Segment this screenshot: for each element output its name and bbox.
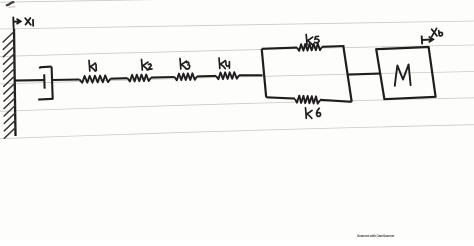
wire wall to damper [15,79,44,82]
parallel block left bar [262,49,267,98]
pen mark smudge [7,2,14,5]
wire damper to spring K1 [53,78,80,81]
label K5 [306,35,319,46]
mass M letter [395,65,411,86]
spring K5 [297,44,322,51]
parallel block top wire left [262,48,297,49]
label K6 [306,108,321,119]
label K2 [142,60,153,71]
wire K3 to K4 [197,75,216,78]
spring K1 [80,75,111,82]
spring K6 [295,96,320,104]
damper cylinder [38,67,53,100]
label x1 arrow [13,18,20,28]
wall hatching [3,32,15,139]
label K3 [180,59,190,70]
parallel block bottom wire right [320,100,352,102]
label K4 [219,58,229,69]
wire K2 to K3 [151,76,175,79]
mass M box [376,47,435,99]
svg-text:Scanned with CamScanner: Scanned with CamScanner [357,234,395,238]
label x1 text [25,18,33,26]
wall [14,29,16,137]
label xb arrow [422,36,433,43]
wire block to mass [348,74,380,75]
parallel block right bar [343,46,351,102]
spring K2 [128,75,152,82]
parallel block top wire right [322,45,345,48]
spring K3 [175,73,198,80]
spring K4 [216,72,239,79]
wire K4 to parallel block [239,74,263,76]
label xb text [432,28,443,36]
parallel block bottom wire left [266,97,295,98]
label K1 [89,61,96,72]
damper piston plate [43,74,45,88]
wire K1 to K2 [111,77,128,80]
ruled notebook lines [0,0,474,139]
